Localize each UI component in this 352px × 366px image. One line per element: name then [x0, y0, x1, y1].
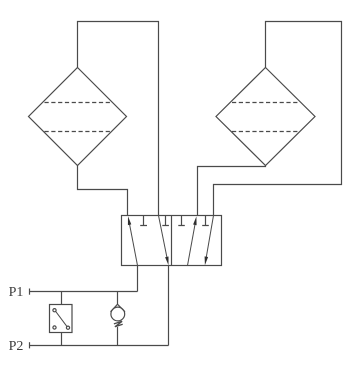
wire: F2 top vertex up, across, down right side, left, down to valve top (arrow D port) — [214, 22, 342, 216]
valve V1 flow arrow C (right box, up) — [188, 221, 196, 265]
filter F1 (left) body — [29, 68, 127, 166]
check valve C1 spring — [114, 321, 123, 327]
pressure switch S1 contact bottom-right — [66, 326, 69, 329]
pressure switch S1 blade — [56, 312, 67, 327]
svg-text:P2: P2 — [9, 339, 24, 354]
svg-text:P1: P1 — [9, 285, 24, 300]
valve V1 flow arrow D (right box, down) — [206, 216, 214, 261]
valve V1 blocked port T3 — [178, 216, 185, 226]
wire: P1 line down to pressure switch S1 — [61, 292, 63, 305]
wire: F1 bottom vertex down, right, down to valve top (arrow A port) — [78, 166, 128, 216]
node P1 terminal tick — [29, 289, 31, 295]
check valve C1 ball — [111, 307, 125, 321]
wire: valve bottom (arrow B port) down to P2 line — [168, 266, 170, 346]
wire: valve bottom left port down to P1 line — [137, 266, 139, 292]
pressure switch S1 contact top-left — [53, 309, 56, 312]
valve V1 blocked port T4 — [202, 216, 209, 226]
filter F1 element dashed line upper — [45, 102, 111, 104]
wire: P1 line down to check valve C1 — [117, 292, 119, 305]
pressure switch S1 box — [50, 305, 73, 333]
node P2 terminal tick — [29, 342, 31, 348]
valve V1 flow arrow A (left box, up) — [129, 221, 138, 266]
wire: F1 top vertex up, across, down to valve top (arrow B port) — [78, 22, 159, 216]
wire: pressure switch S1 down to P2 line — [61, 333, 63, 346]
filter F2 (right) body — [216, 68, 315, 166]
valve V1 blocked port T2 — [162, 216, 169, 226]
filter F1 element dashed line lower — [45, 131, 111, 133]
valve V1 flow arrow B (left box, down) — [159, 216, 168, 261]
wire: P2 line — [30, 345, 169, 347]
filter F2 element dashed line upper — [232, 102, 300, 104]
wire: F2 bottom vertex left, down to valve top (arrow C port) — [198, 166, 266, 216]
valve V1 position divider — [171, 216, 173, 266]
pressure switch S1 contact bottom-left — [53, 326, 56, 329]
valve V1 blocked port T1 — [140, 216, 147, 226]
wire: P1 line — [30, 291, 138, 293]
valve V1 outer body — [122, 216, 222, 266]
wire: check valve C1 down to P2 line — [117, 327, 119, 346]
filter F2 element dashed line lower — [232, 131, 300, 133]
check valve C1 seat — [111, 304, 126, 312]
